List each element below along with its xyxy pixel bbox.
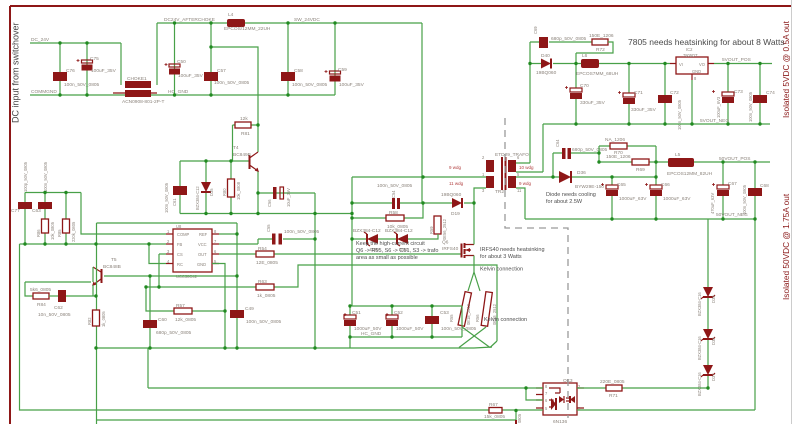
svg-text:5VOUT_POS: 5VOUT_POS (722, 57, 751, 63)
resistor R57 (174, 303, 196, 323)
wire IC2 gnd (691, 80, 693, 124)
transformer TR2 primary winding upper (449, 155, 494, 177)
svg-text:10k_0805: 10k_0805 (50, 221, 55, 240)
wire bottom feedback loop (20, 244, 517, 410)
svg-text:BZX384-C16: BZX384-C16 (697, 336, 702, 360)
svg-text:EPCOS/12MM_22UH: EPCOS/12MM_22UH (224, 26, 271, 32)
svg-text:5VOUT_NEG: 5VOUT_NEG (700, 118, 729, 124)
wire T5 collector (25, 267, 93, 282)
svg-text:1000uF_63V: 1000uF_63V (663, 196, 691, 202)
svg-text:680p_50V_0805: 680p_50V_0805 (551, 36, 587, 42)
svg-text:100uF_35V: 100uF_35V (178, 73, 204, 79)
svg-text:12E_0805: 12E_0805 (256, 260, 278, 266)
svg-text:220E_0805: 220E_0805 (600, 379, 625, 385)
svg-text:T4: T4 (233, 145, 239, 151)
svg-text:19BQ060: 19BQ060 (536, 70, 557, 76)
capacitor C69 (533, 26, 587, 48)
svg-text:R55: R55 (449, 314, 454, 322)
svg-text:100n_50V_0805: 100n_50V_0805 (441, 326, 477, 332)
wire rectified 5V column (575, 53, 577, 124)
svg-text:100n_50V_0805: 100n_50V_0805 (284, 229, 320, 235)
capacitor C72 (658, 90, 682, 130)
wire choke out up (156, 23, 158, 85)
svg-text:R86: R86 (36, 229, 41, 237)
svg-text:C57: C57 (217, 68, 226, 74)
svg-text:7805DT: 7805DT (683, 53, 698, 58)
resistor R63 (256, 279, 276, 299)
wire RT row (146, 287, 225, 311)
svg-text:C54: C54 (391, 190, 396, 198)
svg-text:C66: C66 (661, 182, 670, 188)
resistor R81 (233, 116, 259, 137)
wire C59 branch (334, 23, 336, 95)
optocoupler OK3 (536, 378, 584, 424)
capacitor C68 (742, 162, 769, 219)
svg-text:C73: C73 (734, 89, 743, 95)
svg-text:10uF_35V: 10uF_35V (286, 188, 291, 207)
capacitor C70 (570, 83, 606, 106)
transformer TR2 secondary winding upper (508, 155, 534, 177)
capacitor C67 (710, 162, 737, 219)
svg-text:C67: C67 (728, 181, 737, 187)
svg-text:DC_24V: DC_24V (31, 37, 50, 43)
svg-text:D39: D39 (711, 295, 716, 303)
wire R84 to C62 (49, 295, 58, 297)
wire bulk cap bottom rail (350, 306, 462, 337)
svg-text:10 wdg: 10 wdg (519, 165, 534, 170)
capacitor C73 (716, 89, 743, 118)
svg-text:1000uF_50V: 1000uF_50V (354, 326, 382, 332)
svg-text:TR2: TR2 (495, 189, 504, 195)
wire snubber row C54 (352, 202, 474, 204)
diode D40 (536, 53, 557, 76)
svg-text:NA_1206: NA_1206 (605, 137, 625, 143)
capacitor C59 (330, 67, 365, 88)
svg-text:9 wdg: 9 wdg (519, 181, 532, 186)
svg-text:Keep the high-current circuit: Keep the high-current circuit (356, 241, 425, 247)
svg-text:C68: C68 (760, 183, 769, 189)
wire 5V gnd rail (543, 123, 770, 125)
svg-text:CS: CS (177, 252, 183, 257)
svg-text:Isolated 5VDC @ 0.5A out: Isolated 5VDC @ 0.5A out (781, 20, 791, 118)
capacitor C60 (143, 317, 192, 336)
resistor R55 (449, 292, 471, 327)
svg-text:C52: C52 (394, 310, 403, 316)
transistor T4 (233, 145, 258, 193)
svg-text:VCC: VCC (198, 242, 207, 247)
svg-text:C62: C62 (54, 305, 63, 311)
svg-text:C65: C65 (617, 182, 626, 188)
svg-text:150E_1206: 150E_1206 (606, 154, 631, 160)
svg-text:100n_50V_0805: 100n_50V_0805 (677, 99, 682, 130)
capacitor C61 (164, 182, 187, 213)
svg-text:D40: D40 (541, 53, 550, 59)
resistor R82 (87, 310, 106, 327)
svg-text:BZX384-C16: BZX384-C16 (697, 292, 702, 316)
choke CHOKE1 (113, 76, 164, 105)
resistor R80 (222, 161, 241, 214)
svg-text:R72: R72 (596, 47, 605, 53)
svg-text:12k_0805: 12k_0805 (175, 317, 196, 323)
wire C71 branch (628, 64, 630, 125)
svg-text:BC848B: BC848B (103, 264, 121, 270)
wire Q6 source (473, 203, 475, 272)
wire bulk cap top rail (352, 305, 462, 307)
wire kelvin sense return (474, 347, 492, 348)
svg-text:C71: C71 (634, 90, 643, 96)
wire snubber row R58 (352, 203, 423, 218)
resistor R69 (599, 154, 668, 173)
svg-text:C50: C50 (177, 59, 186, 65)
wire 50V gnd from winding (516, 188, 525, 219)
svg-text:R85: R85 (57, 229, 62, 237)
svg-text:IRFS40 needs heatsinking: IRFS40 needs heatsinking (480, 247, 545, 253)
svg-text:R82: R82 (87, 317, 92, 325)
svg-text:R69: R69 (636, 167, 645, 173)
wire 5Vgnd to winding (516, 124, 543, 172)
svg-text:100n_50V_0805: 100n_50V_0805 (164, 182, 169, 213)
svg-text:U8: U8 (176, 224, 182, 229)
zener D37 (697, 365, 716, 396)
svg-text:C74: C74 (766, 90, 775, 96)
svg-text:100uF_6V3: 100uF_6V3 (716, 96, 721, 118)
svg-text:11 wdg: 11 wdg (449, 181, 464, 186)
svg-text:Kelvin connection: Kelvin connection (484, 317, 527, 323)
svg-text:50VOUT_NEG: 50VOUT_NEG (716, 212, 748, 218)
wire D40 row (530, 63, 581, 65)
polarity plus marks (77, 59, 716, 316)
wire kelvin split (468, 272, 480, 291)
svg-text:C49: C49 (245, 306, 254, 312)
capacitor C65 (606, 177, 647, 219)
wire choke input drop (120, 43, 122, 85)
svg-text:C70: C70 (580, 83, 589, 89)
wire REF column (236, 223, 238, 348)
wire CT column (149, 276, 151, 348)
svg-text:100n_50V_0805: 100n_50V_0805 (748, 91, 753, 122)
capacitor C63 (32, 161, 52, 219)
wire snubber left column (351, 177, 353, 306)
svg-text:100n_50V_0805: 100n_50V_0805 (377, 183, 413, 189)
svg-text:100n_50V_0805: 100n_50V_0805 (43, 161, 48, 192)
wire COMP net (81, 193, 166, 235)
wire CT column to opto (147, 348, 149, 388)
resistor R59 (429, 216, 447, 240)
wire REF row 223 (97, 222, 238, 224)
svg-text:R54: R54 (258, 246, 267, 252)
wire C73 branch (727, 64, 729, 125)
svg-text:100n_50V_0805: 100n_50V_0805 (292, 82, 328, 88)
svg-text:C51: C51 (352, 310, 361, 316)
svg-text:C56: C56 (267, 199, 272, 207)
svg-text:1000uF_63V: 1000uF_63V (619, 196, 647, 202)
svg-text:9 wdg: 9 wdg (449, 165, 462, 170)
svg-text:ACN0908-801-2P-T: ACN0908-801-2P-T (122, 99, 164, 105)
IC2 7805 (670, 47, 714, 81)
svg-text:1k_0805: 1k_0805 (257, 293, 276, 299)
svg-text:area as small as possible: area as small as possible (356, 255, 418, 261)
wire C74 branch (759, 64, 761, 125)
svg-text:5k6_0805: 5k6_0805 (30, 287, 51, 293)
capacitor C75 (82, 56, 117, 74)
svg-text:C58: C58 (294, 68, 303, 74)
svg-text:19BQ060: 19BQ060 (441, 192, 462, 198)
svg-text:10n_50V_0805: 10n_50V_0805 (38, 312, 71, 318)
wire T4 emitter row (258, 193, 315, 214)
resistor R86 (36, 219, 55, 244)
capacitor C64 (555, 139, 608, 159)
svg-text:100uF_35V: 100uF_35V (339, 82, 365, 88)
resistor R72 (589, 33, 614, 53)
capacitor C74 (748, 90, 775, 122)
svg-text:100n_50V_0805: 100n_50V_0805 (64, 82, 100, 88)
wire C50 branch (174, 23, 176, 95)
resistor R67 (484, 402, 505, 420)
svg-text:ETD29_TRAFO: ETD29_TRAFO (495, 152, 529, 158)
capacitor C66 (650, 177, 691, 219)
wire GND pin net (212, 264, 225, 349)
wire C76 branch (59, 43, 61, 95)
wire opto pin5 stub (516, 409, 543, 411)
svg-text:11: 11 (517, 188, 522, 193)
capacitor C77 (11, 161, 32, 244)
zener D34 (385, 228, 413, 253)
transformer TR2 secondary winding lower (508, 176, 532, 193)
capacitor C56 (267, 187, 291, 207)
wire C62 to node (66, 295, 96, 297)
svg-text:15k_0805: 15k_0805 (484, 414, 505, 420)
wire opto emitter right (577, 409, 755, 411)
wire kelvin crossing (459, 327, 497, 348)
zener D35 (195, 161, 214, 214)
svg-text:VI: VI (679, 62, 683, 67)
inductor L6 (576, 53, 619, 77)
svg-text:0E18_2512: 0E18_2512 (466, 303, 471, 325)
svg-text:Q6 -> R55, S6 -> C51, S3 -> tr: Q6 -> R55, S6 -> C51, S3 -> trafo (356, 248, 438, 254)
wire primary feed (352, 176, 486, 178)
svg-text:L4: L4 (228, 12, 234, 18)
component stub exiting bottom (515, 420, 517, 424)
resistor R58 (386, 210, 408, 230)
svg-text:SW_24VDC: SW_24VDC (294, 17, 320, 23)
capacitor C49 (230, 306, 282, 325)
svg-text:220k_0805: 220k_0805 (71, 221, 76, 242)
svg-text:R56: R56 (475, 314, 480, 322)
wire 50V out row (694, 161, 770, 163)
svg-text:Diode needs cooling: Diode needs cooling (546, 192, 596, 198)
diode D19 (441, 192, 462, 217)
svg-text:HC_GND: HC_GND (168, 89, 189, 95)
wire secondary top to snubber (516, 42, 530, 163)
wire CS sense row (146, 265, 497, 341)
wire CS pin wire (159, 254, 166, 287)
resistor R71 (600, 379, 625, 399)
svg-text:EPCOS12MM_82UH: EPCOS12MM_82UH (667, 171, 713, 177)
svg-text:R80: R80 (222, 188, 227, 196)
wire zener chain column (707, 219, 709, 388)
capacitor C53 (425, 306, 477, 337)
svg-text:D35: D35 (209, 188, 214, 196)
svg-text:BZX384-C12: BZX384-C12 (353, 228, 381, 234)
svg-text:D38: D38 (711, 337, 716, 345)
wire 5V out row (714, 63, 772, 65)
wire COMMGND rail (30, 94, 335, 96)
wire DC24V_AFTERCHOKE / SW_24VDC rail (157, 22, 422, 24)
svg-text:6N136: 6N136 (553, 419, 567, 424)
wire snubber cap row (530, 41, 592, 43)
svg-text:Kelvin connection: Kelvin connection (480, 267, 523, 273)
wire T5 base row (104, 275, 237, 277)
transformer TR2 core (495, 152, 529, 195)
wire FB divider top rail (25, 192, 81, 194)
svg-text:BZX384-C12: BZX384-C12 (195, 186, 200, 210)
svg-text:D36: D36 (577, 170, 586, 176)
svg-text:R71: R71 (609, 393, 618, 399)
svg-text:470uF_63V: 470uF_63V (710, 193, 715, 214)
wire RC pin wire (149, 244, 166, 264)
transformer TR2 primary winding lower (449, 176, 494, 193)
svg-text:COMMGND: COMMGND (31, 89, 57, 95)
mosfet Q6 (442, 240, 474, 259)
svg-text:DC24V_AFTERCHOKE: DC24V_AFTERCHOKE (164, 17, 215, 23)
capacitor C52 (386, 306, 424, 337)
svg-text:C55: C55 (266, 224, 271, 232)
frame right edge line (791, 0, 793, 424)
zener D39 (697, 287, 716, 316)
svg-text:C72: C72 (670, 90, 679, 96)
inductor L5 (667, 152, 713, 177)
wire snubber row zeners (352, 234, 438, 239)
svg-text:7805 needs heatsinking for abo: 7805 needs heatsinking for about 8 Watts (628, 37, 785, 47)
svg-text:L6: L6 (582, 53, 588, 59)
wire C61 left branch (179, 161, 181, 214)
wire VCC net (219, 239, 258, 244)
svg-text:R81: R81 (241, 131, 250, 137)
svg-text:C77: C77 (11, 208, 20, 214)
svg-text:COMP: COMP (177, 232, 190, 237)
svg-text:100p_50V_0805: 100p_50V_0805 (23, 161, 28, 192)
svg-text:IC2: IC2 (686, 47, 693, 52)
svg-text:EPCOS7MM_68UH: EPCOS7MM_68UH (576, 71, 619, 77)
capacitor C58 (281, 68, 328, 88)
resistor R85 (57, 193, 76, 245)
wire C55 row (258, 238, 315, 240)
wire DC_24V (30, 42, 121, 44)
svg-text:R58: R58 (389, 210, 398, 216)
wire primary ground rail (180, 213, 352, 215)
svg-text:RC: RC (177, 262, 183, 267)
wire OUT gate drive row (219, 253, 462, 255)
capacitor C76 (53, 68, 100, 88)
svg-text:BYW29E-150: BYW29E-150 (575, 184, 604, 190)
svg-text:Isolated 50VDC @ 1.75A out: Isolated 50VDC @ 1.75A out (781, 193, 791, 300)
wire main ground rail (96, 347, 474, 349)
resistor R70 (599, 137, 656, 156)
resistor R56 (475, 292, 497, 327)
wire T5 emitter (92, 285, 94, 296)
svg-text:150E_1206: 150E_1206 (589, 33, 614, 39)
svg-text:for about 2.5W: for about 2.5W (546, 199, 583, 205)
svg-text:330uF_35V: 330uF_35V (631, 107, 657, 113)
svg-text:GND: GND (692, 69, 701, 74)
frame left border (9, 6, 11, 424)
svg-text:100n_50V_0805: 100n_50V_0805 (742, 184, 747, 215)
resistor R84 (30, 287, 51, 308)
svg-text:CHOKE1: CHOKE1 (127, 76, 147, 82)
zener D20 (353, 228, 381, 253)
svg-text:100n_50V_0805: 100n_50V_0805 (214, 80, 250, 86)
svg-text:680p_50V_0805: 680p_50V_0805 (572, 147, 608, 153)
svg-text:C53: C53 (440, 310, 449, 316)
wire C58 branch (287, 23, 289, 95)
wire left fb vertical top (20, 243, 23, 245)
svg-text:0E56_2512: 0E56_2512 (442, 218, 447, 240)
isolation dashed line (505, 118, 568, 418)
svg-text:C69: C69 (533, 26, 538, 34)
wire R70 to node (655, 146, 657, 177)
wire branch to gate-drive column (211, 47, 258, 161)
svg-text:D37: D37 (711, 373, 716, 381)
capacitor C55 (266, 224, 320, 245)
svg-text:R63: R63 (258, 279, 267, 285)
svg-text:DC input from switchover: DC input from switchover (11, 22, 21, 123)
wire 50V neg drop (754, 219, 756, 410)
wire C75 branch (86, 43, 88, 95)
svg-text:C59: C59 (338, 67, 347, 73)
svg-text:IRFS40: IRFS40 (442, 246, 459, 252)
wire T4 base row (180, 160, 249, 162)
frame top border (10, 5, 791, 7)
svg-text:330uF_35V: 330uF_35V (580, 100, 606, 106)
svg-text:C60: C60 (158, 317, 167, 323)
svg-text:C64: C64 (555, 139, 560, 147)
wire FB rail (22, 243, 166, 245)
svg-text:L5: L5 (675, 152, 681, 158)
wire snubber connector (598, 146, 600, 162)
capacitor C57 (204, 68, 250, 86)
svg-text:OUT: OUT (198, 252, 207, 257)
wire opto anode row (148, 387, 543, 389)
svg-text:C63: C63 (32, 208, 41, 214)
svg-text:D19: D19 (451, 211, 460, 217)
svg-text:C75: C75 (90, 56, 99, 62)
wire drain column (474, 188, 486, 203)
svg-text:1000uF_50V: 1000uF_50V (396, 326, 424, 332)
wire feedback loop left (25, 282, 33, 296)
svg-text:BZX384-C16: BZX384-C16 (697, 372, 702, 396)
transistor T5 (93, 257, 121, 285)
svg-text:BZX384-C12: BZX384-C12 (385, 228, 413, 234)
svg-text:C61: C61 (172, 198, 177, 206)
svg-text:BC849B: BC849B (233, 152, 251, 158)
zener D38 (697, 329, 716, 360)
capacitor C51 (344, 306, 382, 348)
wire C57 branch (210, 23, 212, 95)
IC U8 box (166, 224, 219, 279)
svg-text:R59: R59 (429, 226, 434, 234)
capacitor C71 (623, 90, 657, 113)
svg-text:1k_0805: 1k_0805 (101, 311, 106, 327)
resistor R54 (256, 246, 278, 266)
wire 50V diode row (516, 176, 656, 178)
wire opto pin6 jog (526, 388, 543, 400)
capacitor C54 (377, 183, 413, 209)
inductor L4 (224, 12, 271, 32)
wire 50V gnd rail (525, 218, 755, 220)
svg-text:100n_50V_0805: 100n_50V_0805 (246, 319, 282, 325)
svg-text:T5: T5 (111, 257, 117, 263)
wire 24V drop to primary (421, 23, 423, 203)
